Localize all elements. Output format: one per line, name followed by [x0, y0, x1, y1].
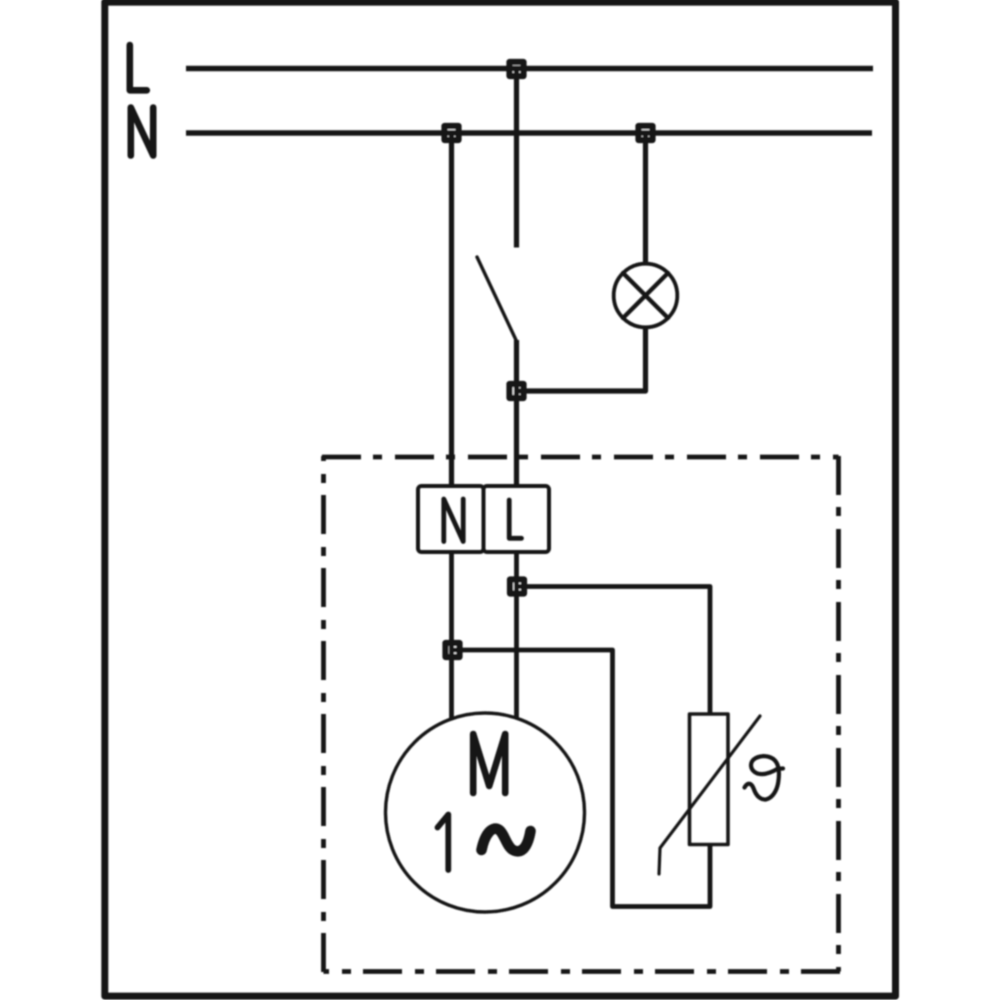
wire L bus: [186, 66, 873, 72]
junction on N bus at 645: [639, 126, 653, 140]
thermistor diagonal: [659, 716, 760, 874]
enclosure dash-dot box top edge: [322, 455, 839, 460]
terminal L box: [484, 486, 550, 552]
motor label 1: [438, 815, 449, 871]
enclosure dash-dot box bottom edge: [324, 969, 841, 974]
wire switch to L terminal: [514, 340, 519, 486]
switch S1 blade: [477, 257, 516, 340]
motor M1 circle: [386, 713, 585, 912]
wire N bus: [186, 130, 872, 136]
label N (neutral): [131, 108, 153, 156]
wire N bus down to N terminal: [449, 133, 454, 486]
thermistor theta label: [745, 756, 784, 799]
wire L terminal to motor: [514, 552, 519, 719]
junction on L bus: [510, 62, 524, 76]
drawing frame: [105, 2, 896, 996]
lamp E1: [614, 264, 678, 328]
terminal N label: [444, 499, 463, 542]
wire L bus to switch: [514, 69, 519, 248]
terminal N box: [418, 486, 484, 552]
thermistor R1 body: [690, 714, 729, 845]
wire lamp to node: [517, 328, 646, 391]
wire L node to thermistor top: [517, 587, 710, 715]
motor letter M: [473, 734, 505, 793]
wire N bus down to lamp: [643, 133, 648, 263]
junction switch output node: [510, 384, 524, 398]
junction N branch node: [446, 643, 460, 657]
junction L branch node: [510, 580, 524, 594]
wire N node to thermistor bottom: [453, 650, 711, 907]
motor label ~: [482, 829, 531, 852]
enclosure dash-dot box right edge: [836, 456, 841, 972]
enclosure dash-dot box left edge: [321, 456, 326, 972]
label L (line): [130, 45, 147, 90]
wire N terminal to motor: [449, 552, 454, 719]
junction on N bus at 452: [445, 126, 459, 140]
terminal L label: [509, 500, 521, 538]
